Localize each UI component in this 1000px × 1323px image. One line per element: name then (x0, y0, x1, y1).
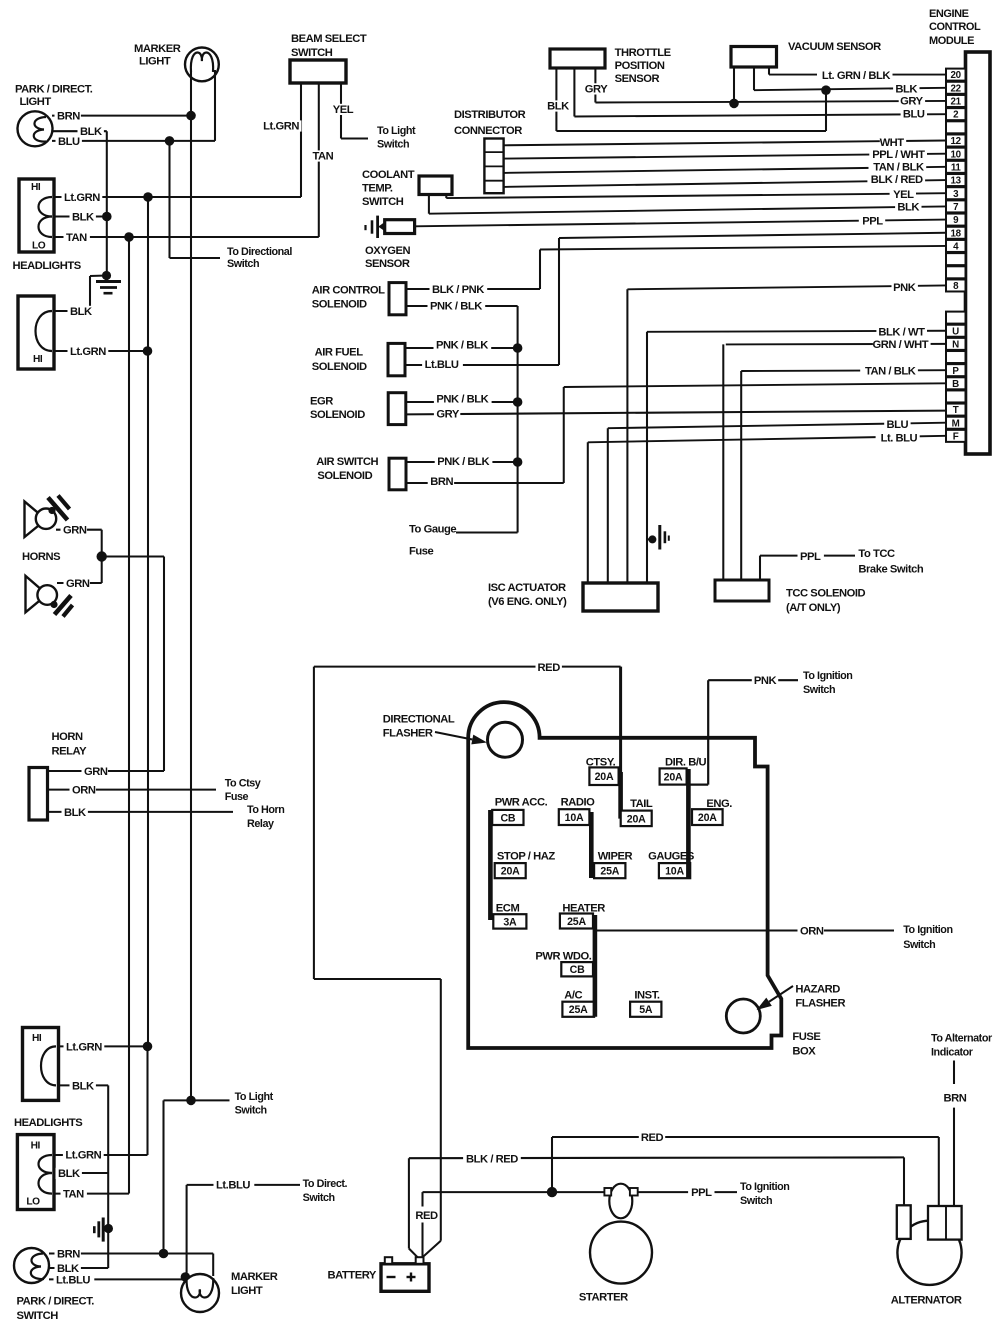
svg-text:A/C: A/C (564, 989, 582, 1001)
svg-text:DIRECTIONAL: DIRECTIONAL (383, 714, 455, 726)
svg-text:Lt. GRN / BLK: Lt. GRN / BLK (822, 70, 890, 82)
svg-text:To Directional: To Directional (227, 246, 292, 258)
svg-text:BOX: BOX (792, 1046, 816, 1058)
svg-text:B: B (952, 379, 959, 390)
svg-text:BLK: BLK (80, 126, 102, 138)
svg-text:GRY: GRY (436, 409, 459, 421)
svg-text:Switch: Switch (227, 258, 259, 270)
svg-text:Relay: Relay (247, 818, 274, 830)
svg-text:ECM: ECM (496, 902, 520, 914)
svg-text:LIGHT: LIGHT (231, 1285, 263, 1297)
svg-text:ORN: ORN (72, 785, 96, 797)
svg-text:Lt.BLU: Lt.BLU (56, 1274, 90, 1286)
svg-text:20A: 20A (698, 812, 717, 824)
svg-text:BLK / PNK: BLK / PNK (432, 284, 484, 296)
svg-text:13: 13 (951, 176, 962, 187)
svg-text:SENSOR: SENSOR (365, 258, 410, 270)
svg-text:BLK / RED: BLK / RED (871, 174, 923, 186)
svg-text:Lt.BLU: Lt.BLU (425, 359, 459, 371)
svg-text:HI: HI (32, 1033, 42, 1044)
svg-text:18: 18 (951, 228, 962, 239)
svg-text:Switch: Switch (303, 1192, 335, 1204)
svg-text:To Alternator: To Alternator (931, 1033, 993, 1045)
svg-text:BRN: BRN (57, 1249, 80, 1261)
svg-text:21: 21 (951, 97, 962, 108)
svg-text:22: 22 (951, 83, 962, 94)
svg-text:MARKER: MARKER (231, 1271, 278, 1283)
svg-text:PPL / WHT: PPL / WHT (872, 149, 925, 161)
svg-text:YEL: YEL (893, 189, 914, 201)
svg-text:PARK / DIRECT.: PARK / DIRECT. (15, 84, 93, 96)
svg-text:Switch: Switch (235, 1105, 267, 1117)
svg-text:ORN: ORN (800, 926, 824, 938)
svg-text:F: F (953, 432, 959, 443)
svg-text:SOLENOID: SOLENOID (310, 409, 365, 421)
svg-text:HEATER: HEATER (562, 902, 605, 914)
svg-text:To Light: To Light (235, 1091, 274, 1103)
svg-text:9: 9 (953, 215, 959, 226)
svg-text:HEADLIGHTS: HEADLIGHTS (13, 260, 82, 272)
svg-text:WHT: WHT (880, 137, 905, 149)
svg-text:GRY: GRY (585, 84, 608, 96)
svg-text:3A: 3A (503, 916, 517, 928)
svg-text:Brake Switch: Brake Switch (858, 563, 923, 575)
svg-text:GRN: GRN (66, 578, 90, 590)
svg-text:RED: RED (641, 1132, 664, 1144)
svg-text:PNK / BLK: PNK / BLK (430, 301, 482, 313)
svg-text:Lt.GRN: Lt.GRN (70, 346, 106, 358)
svg-text:PNK / BLK: PNK / BLK (436, 340, 488, 352)
svg-text:Switch: Switch (903, 939, 935, 951)
svg-text:BATTERY: BATTERY (328, 1270, 377, 1282)
svg-text:To Ignition: To Ignition (740, 1181, 789, 1193)
svg-text:GRN: GRN (63, 525, 87, 537)
svg-text:HI: HI (33, 354, 43, 365)
svg-text:Fuse: Fuse (225, 791, 249, 803)
svg-text:MODULE: MODULE (929, 35, 974, 47)
svg-text:TCC SOLENOID: TCC SOLENOID (786, 588, 865, 600)
svg-text:AIR FUEL: AIR FUEL (315, 346, 364, 358)
svg-text:25A: 25A (569, 1004, 588, 1016)
svg-text:HEADLIGHTS: HEADLIGHTS (14, 1117, 83, 1129)
svg-text:To Light: To Light (377, 125, 416, 137)
svg-text:PNK / BLK: PNK / BLK (436, 394, 488, 406)
svg-text:INST.: INST. (634, 989, 659, 1001)
svg-text:10A: 10A (665, 866, 684, 878)
svg-text:Lt. BLU: Lt. BLU (881, 433, 918, 445)
svg-text:ALTERNATOR: ALTERNATOR (891, 1295, 962, 1307)
svg-text:PPL: PPL (691, 1187, 712, 1199)
svg-text:POSITION: POSITION (615, 60, 665, 72)
svg-text:PNK / BLK: PNK / BLK (437, 456, 489, 468)
svg-text:BLK: BLK (58, 1168, 80, 1180)
svg-text:(V6 ENG. ONLY): (V6 ENG. ONLY) (488, 596, 567, 608)
svg-text:GAUGES: GAUGES (648, 850, 695, 862)
svg-text:2: 2 (953, 110, 959, 121)
svg-text:BLU: BLU (886, 419, 908, 431)
svg-text:U: U (952, 326, 959, 337)
svg-text:ISC ACTUATOR: ISC ACTUATOR (488, 582, 566, 594)
svg-text:CTSY.: CTSY. (586, 756, 616, 768)
svg-text:COOLANT: COOLANT (362, 169, 415, 181)
svg-text:SWITCH: SWITCH (291, 47, 333, 59)
svg-text:BLU: BLU (58, 136, 80, 148)
svg-text:CB: CB (570, 964, 585, 976)
svg-text:DISTRIBUTOR: DISTRIBUTOR (454, 109, 526, 121)
svg-text:GRN: GRN (84, 766, 108, 778)
svg-text:To Direct.: To Direct. (303, 1178, 348, 1190)
svg-text:LO: LO (26, 1196, 40, 1207)
svg-text:20A: 20A (501, 866, 520, 878)
svg-text:LIGHT: LIGHT (20, 96, 52, 108)
svg-text:RADIO: RADIO (561, 796, 596, 808)
svg-text:LIGHT: LIGHT (139, 56, 171, 68)
svg-text:SENSOR: SENSOR (615, 73, 660, 85)
svg-text:ENG.: ENG. (706, 798, 732, 810)
svg-text:T: T (953, 405, 959, 416)
svg-text:TAN: TAN (63, 1189, 84, 1201)
svg-text:SOLENOID: SOLENOID (312, 361, 367, 373)
svg-text:FUSE: FUSE (792, 1031, 821, 1043)
svg-text:HORNS: HORNS (22, 551, 61, 563)
svg-text:3: 3 (953, 189, 959, 200)
svg-text:HAZARD: HAZARD (795, 983, 840, 995)
svg-text:20A: 20A (595, 771, 614, 783)
svg-text:BRN: BRN (944, 1092, 967, 1104)
svg-text:Fuse: Fuse (409, 546, 434, 558)
svg-text:BRN: BRN (430, 476, 453, 488)
svg-text:CONTROL: CONTROL (929, 21, 981, 33)
svg-text:TAN: TAN (313, 151, 334, 163)
svg-text:BLK: BLK (895, 84, 917, 96)
svg-text:20A: 20A (627, 813, 646, 825)
svg-text:HI: HI (31, 182, 41, 193)
svg-text:PPL: PPL (800, 551, 821, 563)
svg-text:5A: 5A (639, 1004, 653, 1016)
svg-text:BLK: BLK (897, 202, 919, 214)
svg-text:10A: 10A (565, 812, 584, 824)
svg-text:PPL: PPL (862, 216, 883, 228)
svg-text:AIR SWITCH: AIR SWITCH (316, 456, 378, 468)
svg-text:TEMP.: TEMP. (362, 183, 393, 195)
svg-text:Lt.GRN: Lt.GRN (263, 121, 299, 133)
svg-text:AIR CONTROL: AIR CONTROL (312, 285, 385, 297)
svg-text:HORN: HORN (52, 731, 84, 743)
svg-text:Lt.GRN: Lt.GRN (65, 1149, 101, 1161)
svg-text:Switch: Switch (803, 684, 835, 696)
svg-text:PWR ACC.: PWR ACC. (495, 796, 548, 808)
svg-text:TAIL: TAIL (630, 798, 653, 810)
svg-text:TAN / BLK: TAN / BLK (865, 366, 916, 378)
svg-text:GRN / WHT: GRN / WHT (872, 339, 928, 351)
svg-text:RELAY: RELAY (52, 746, 88, 758)
svg-text:STARTER: STARTER (579, 1292, 628, 1304)
svg-text:N: N (952, 340, 959, 351)
svg-text:EGR: EGR (310, 395, 333, 407)
svg-text:BLK / RED: BLK / RED (466, 1153, 518, 1165)
svg-text:BLK: BLK (72, 1080, 94, 1092)
svg-text:SWITCH: SWITCH (17, 1310, 59, 1322)
svg-text:BLK: BLK (64, 807, 86, 819)
svg-text:BLK: BLK (70, 306, 92, 318)
svg-text:20A: 20A (664, 772, 683, 784)
svg-text:ENGINE: ENGINE (929, 8, 969, 20)
svg-text:(A/T ONLY): (A/T ONLY) (786, 602, 841, 614)
svg-text:10: 10 (951, 149, 962, 160)
svg-text:25A: 25A (567, 916, 586, 928)
svg-text:To Gauge: To Gauge (409, 524, 456, 536)
svg-text:RED: RED (538, 662, 561, 674)
svg-text:BLU: BLU (903, 109, 925, 121)
svg-text:Switch: Switch (740, 1195, 772, 1207)
svg-text:11: 11 (951, 163, 962, 174)
svg-text:20: 20 (951, 70, 962, 81)
svg-text:8: 8 (953, 281, 959, 292)
svg-text:CB: CB (500, 813, 515, 825)
svg-text:YEL: YEL (333, 104, 354, 116)
svg-text:FLASHER: FLASHER (383, 728, 433, 740)
svg-text:PARK / DIRECT.: PARK / DIRECT. (17, 1296, 95, 1308)
svg-text:BLK: BLK (547, 101, 569, 113)
svg-text:7: 7 (953, 202, 959, 213)
svg-text:P: P (952, 366, 959, 377)
svg-text:HI: HI (31, 1140, 41, 1151)
svg-text:STOP / HAZ: STOP / HAZ (497, 850, 555, 862)
svg-text:To Ctsy: To Ctsy (225, 778, 261, 790)
svg-text:SOLENOID: SOLENOID (312, 299, 367, 311)
svg-text:VACUUM SENSOR: VACUUM SENSOR (788, 41, 881, 53)
svg-text:Switch: Switch (377, 139, 409, 151)
svg-text:Lt.GRN: Lt.GRN (66, 1041, 102, 1053)
svg-text:Lt.GRN: Lt.GRN (64, 192, 100, 204)
svg-text:PNK: PNK (754, 675, 777, 687)
svg-text:TAN: TAN (66, 232, 87, 244)
svg-text:TAN / BLK: TAN / BLK (873, 162, 924, 174)
svg-text:SOLENOID: SOLENOID (317, 470, 372, 482)
svg-text:4: 4 (953, 242, 959, 253)
svg-text:GRY: GRY (900, 96, 923, 108)
svg-text:To Ignition: To Ignition (903, 924, 952, 936)
svg-text:12: 12 (951, 136, 962, 147)
svg-text:RED: RED (415, 1210, 438, 1222)
svg-text:OXYGEN: OXYGEN (365, 245, 411, 257)
svg-text:M: M (952, 418, 960, 429)
svg-text:BLK: BLK (57, 1263, 79, 1275)
svg-text:To TCC: To TCC (858, 548, 895, 560)
svg-text:THROTTLE: THROTTLE (615, 47, 672, 59)
svg-text:BEAM SELECT: BEAM SELECT (291, 33, 367, 45)
svg-text:SWITCH: SWITCH (362, 196, 404, 208)
svg-text:BLK / WT: BLK / WT (878, 327, 925, 339)
svg-text:PWR WDO.: PWR WDO. (535, 950, 591, 962)
svg-text:WIPER: WIPER (598, 850, 633, 862)
svg-text:BRN: BRN (57, 111, 80, 123)
svg-text:LO: LO (32, 241, 46, 252)
svg-text:Indicator: Indicator (931, 1047, 974, 1059)
svg-text:PNK: PNK (893, 282, 916, 294)
svg-text:25A: 25A (600, 866, 619, 878)
svg-text:DIR. B/U: DIR. B/U (665, 756, 707, 768)
svg-text:CONNECTOR: CONNECTOR (454, 125, 522, 137)
svg-text:MARKER: MARKER (134, 43, 181, 55)
svg-text:BLK: BLK (72, 212, 94, 224)
svg-text:To Horn: To Horn (247, 804, 284, 816)
svg-text:Lt.BLU: Lt.BLU (216, 1179, 250, 1191)
svg-text:To Ignition: To Ignition (803, 670, 852, 682)
svg-text:FLASHER: FLASHER (795, 998, 845, 1010)
